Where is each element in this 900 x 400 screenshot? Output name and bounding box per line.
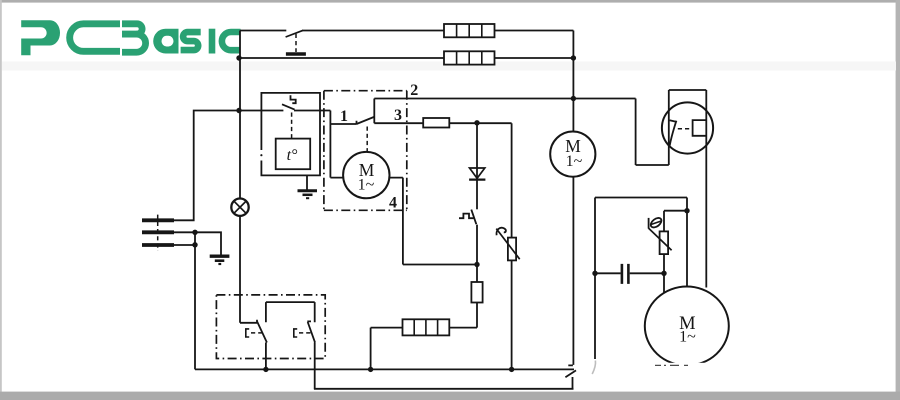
svg-text:4: 4 [389,194,397,211]
svg-text:1: 1 [340,108,348,125]
svg-text:1~: 1~ [566,153,583,170]
svg-text:1~: 1~ [358,176,375,193]
svg-text:t°: t° [287,147,298,164]
svg-text:2: 2 [410,82,418,99]
svg-text:3: 3 [394,107,402,124]
svg-text:1~: 1~ [679,329,696,346]
